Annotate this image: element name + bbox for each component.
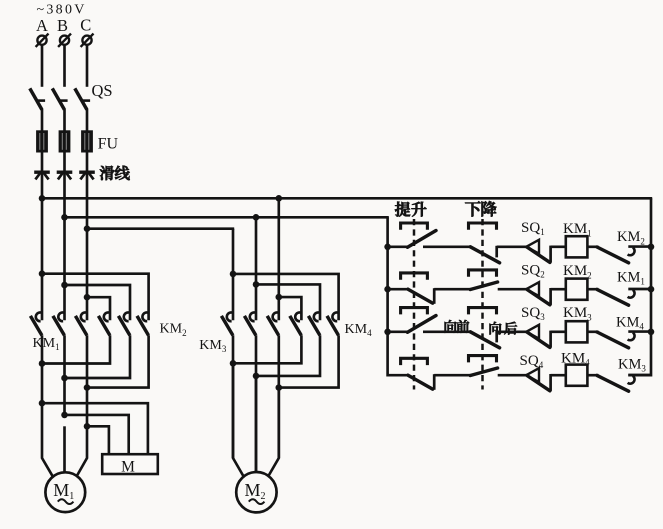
contactor KM4 main contact pole 3 <box>327 312 339 335</box>
label phase B <box>57 16 68 35</box>
wire KM2 pole2 output merge <box>65 335 131 378</box>
controller contact backward row3 bracket <box>469 308 497 315</box>
interlock contact KM2 (NC) <box>597 247 651 263</box>
fuse FU pole A <box>37 131 48 152</box>
wire row4 SQ4 to coil KM4 <box>551 374 566 377</box>
wire phase B down to KM3 <box>255 217 258 320</box>
wire FU to slide-contact phase C <box>86 152 89 173</box>
label phase C <box>80 16 91 35</box>
wire FU to slide-contact phase A <box>41 152 44 173</box>
wire row2 lift to lower contact <box>434 288 470 291</box>
limit switch SQ4 <box>526 368 550 391</box>
wire phase A down to KM3 <box>277 198 280 320</box>
wire cross feed A to KM4 <box>279 297 302 320</box>
node C to KM4 cross feed <box>230 271 237 278</box>
switch QS pole A <box>30 88 45 109</box>
wire QS to FU phase B <box>63 109 66 132</box>
svg-text:KM4: KM4 <box>616 315 644 332</box>
interlock contact KM4 (NC) <box>597 332 651 348</box>
wire KM2 pole3 output merge <box>87 335 149 387</box>
controller contact backward row4 <box>470 368 497 376</box>
label KM3 interlock <box>618 357 646 374</box>
label button 向前 (forward) <box>445 320 470 333</box>
motor M2 <box>236 472 276 512</box>
label ~380V supply <box>37 2 87 17</box>
node merge V motor 1 <box>61 375 68 382</box>
node brake tap phase V <box>61 412 68 419</box>
label button 提升 (lift) <box>395 202 427 217</box>
label KM2 interlock <box>617 229 645 246</box>
node row3 right rail <box>648 329 655 336</box>
node merge U motor 2 <box>230 360 237 367</box>
label SQ2 <box>521 262 545 279</box>
label KM4 (bank) <box>345 322 373 338</box>
svg-text:KM2: KM2 <box>617 229 645 246</box>
label KM1 coil <box>563 221 592 238</box>
node bus L2 tap to KM3 bank <box>253 214 260 221</box>
controller contact forward row4 bracket <box>401 358 428 365</box>
svg-text:KM3: KM3 <box>199 338 227 354</box>
coil KM2 <box>566 279 588 300</box>
contactor KM2 main contact pole 2 <box>118 312 130 335</box>
svg-text:M2: M2 <box>244 480 265 502</box>
label KM3 (bank) <box>199 338 227 354</box>
wire QS to FU phase A <box>41 109 44 132</box>
wire motor M2 lead V <box>255 376 258 472</box>
node bus L1 / phase A <box>39 195 46 202</box>
wire KM3 pole2 output <box>255 335 258 472</box>
wire row4 fwd to back contact <box>434 374 470 377</box>
wire row2 rail to lift contact <box>388 288 409 291</box>
label button 向后 (backward) <box>490 322 518 335</box>
svg-text:C: C <box>80 16 91 35</box>
node bus L3 / phase C <box>84 225 91 232</box>
wire motor M2 lead U <box>233 363 244 476</box>
label 滑线 <box>100 166 130 180</box>
slide-wire collector phase B <box>57 172 73 179</box>
node row1 left rail <box>384 244 391 251</box>
node bus L1 tap to KM3 bank <box>276 195 283 202</box>
lift/lower controller linkage (dashed) <box>413 219 416 390</box>
label phase A <box>36 16 48 35</box>
contactor KM3 main contact pole 3 <box>267 312 279 335</box>
label KM4 interlock <box>616 315 644 332</box>
label QS <box>92 81 113 100</box>
wire KM3 pole3 output <box>277 335 280 458</box>
label KM2 (bank) <box>160 322 187 338</box>
svg-text:M: M <box>121 459 135 476</box>
controller contact forward row3 (NO) <box>408 316 437 333</box>
limit switch SQ2 <box>526 282 550 305</box>
wire cross feed C to KM2 <box>87 297 110 320</box>
wire KM1 pole2 output <box>63 335 66 415</box>
node phase C to KM2 cross feed <box>84 294 91 301</box>
node row2 right rail <box>648 286 655 293</box>
node A to KM4 cross feed <box>276 294 283 301</box>
svg-text:KM1: KM1 <box>33 336 60 352</box>
svg-text:B: B <box>57 16 68 35</box>
wire row3 rail to fwd contact <box>388 330 409 333</box>
wire row1 SQ1 to coil KM1 <box>551 245 566 248</box>
contactor KM1 main contact pole 1 <box>30 312 42 335</box>
label SQ3 <box>521 305 545 322</box>
wire phase A terminal to QS <box>41 45 44 87</box>
wire row3 fwd to back contact <box>423 330 471 333</box>
slide-wire collector phase A <box>34 172 50 179</box>
limit switch SQ1 <box>526 240 550 263</box>
wire phase C down to KM1 <box>86 229 89 321</box>
wire slide-contact down to bus phase A <box>41 174 44 199</box>
node merge W motor 2 <box>276 384 283 391</box>
wire row3 coil KM3 out <box>587 330 598 333</box>
wire KM3 pole1 output <box>232 335 235 458</box>
wire cross feed B to KM4 <box>256 284 320 320</box>
terminal circle phase B <box>58 34 71 47</box>
label FU <box>98 135 119 152</box>
wire brake tap U <box>42 403 148 454</box>
wire KM4 pole3 output merge <box>279 335 339 387</box>
wire motor M2 lead W <box>268 388 278 476</box>
controller contact lift row2 bracket <box>401 273 428 280</box>
fuse FU pole B <box>59 131 70 152</box>
wire phase A down to KM1 <box>41 198 44 320</box>
controller contact lift row2 <box>408 288 434 304</box>
controller contact lift row1 (NO) <box>408 231 437 248</box>
coil KM4 <box>566 365 588 386</box>
brake electromagnet M (box) <box>102 454 158 475</box>
controller contact backward row4 bracket <box>469 356 497 363</box>
controller contact lower row1 <box>470 246 499 263</box>
bus L1 (phase A) horizontal <box>41 197 652 200</box>
node brake tap phase U <box>39 400 46 407</box>
wire FU to slide-contact phase B <box>63 152 66 173</box>
wire KM1 pole3 output <box>86 335 89 426</box>
wire row1 lower contact to SQ1 <box>497 245 527 248</box>
wire KM2 pole1 output merge <box>42 335 110 363</box>
contactor KM4 main contact pole 1 <box>290 312 302 335</box>
wire phase C terminal to QS <box>86 45 89 87</box>
wire brake tap W <box>87 426 109 454</box>
wire KM4 pole1 output merge <box>233 335 301 363</box>
svg-text:A: A <box>36 16 48 35</box>
wire cross feed A to KM2 <box>42 274 149 321</box>
wire row1 lift to lower contact <box>423 245 471 248</box>
wire phase C down to KM3 <box>232 229 235 321</box>
label KM3 coil <box>563 305 592 322</box>
node row1 right rail <box>648 244 655 251</box>
limit switch SQ3 <box>526 325 550 348</box>
controller contact lower row2 <box>470 282 497 290</box>
wire row4 back contact to SQ4 <box>498 374 527 377</box>
label button 下降 (lower) <box>465 201 496 216</box>
node row3 left rail <box>384 329 391 336</box>
bus L2 (phase B) horizontal <box>63 216 389 219</box>
wire motor M1 lead W <box>77 426 87 475</box>
fuse FU pole C <box>82 131 93 152</box>
controller contact forward row3 bracket <box>401 308 428 315</box>
control right rail (from L1) <box>628 198 651 375</box>
wire row3 back contact to SQ3 <box>497 330 527 333</box>
svg-text:SQ3: SQ3 <box>521 305 545 322</box>
wire KM1 pole1 output <box>41 335 44 403</box>
wire row4 coil KM4 out <box>587 374 598 377</box>
label SQ4 <box>520 353 544 370</box>
node merge U motor 1 <box>39 360 46 367</box>
wire row1 rail to lift contact <box>388 245 409 248</box>
label SQ1 <box>521 220 545 237</box>
node row2 left rail <box>384 286 391 293</box>
wire QS to FU phase C <box>86 109 89 132</box>
slide-wire collector phase C <box>79 172 95 179</box>
contactor KM1 main contact pole 2 <box>53 312 65 335</box>
wire phase B terminal to QS <box>63 45 66 87</box>
wire motor M1 lead V <box>63 426 66 472</box>
contactor KM2 main contact pole 1 <box>98 312 110 335</box>
svg-text:FU: FU <box>98 135 119 152</box>
node B to KM4 cross feed <box>253 281 260 288</box>
svg-text:SQ2: SQ2 <box>521 262 545 279</box>
controller contact lower row1 bracket <box>469 223 497 230</box>
contactor KM3 main contact pole 2 <box>244 312 256 335</box>
svg-text:KM3: KM3 <box>563 305 592 322</box>
wire slide-contact down to bus phase B <box>63 174 66 218</box>
control left rail (from L2) <box>388 217 408 375</box>
node merge V motor 2 <box>253 373 260 380</box>
wire phase B down to KM1 <box>63 217 66 320</box>
wire brake tap V <box>65 415 129 455</box>
controller contact backward row3 <box>470 331 499 348</box>
coil KM3 <box>566 321 588 342</box>
coil KM1 <box>566 236 588 257</box>
terminal circle phase A <box>36 34 49 47</box>
svg-text:KM4: KM4 <box>345 322 373 338</box>
label KM1 (bank) <box>33 336 60 352</box>
wire motor M1 lead U <box>42 403 53 477</box>
svg-text:SQ1: SQ1 <box>521 220 545 237</box>
node bus L2 / phase B <box>61 214 68 221</box>
interlock contact KM3 (NC) <box>597 375 651 391</box>
wire row3 SQ3 to coil KM3 <box>551 330 566 333</box>
wire slide-contact down to bus phase C <box>86 174 89 229</box>
svg-text:KM2: KM2 <box>160 322 187 338</box>
node phase B to KM2 cross feed <box>61 282 68 289</box>
contactor KM2 main contact pole 3 <box>137 312 149 335</box>
switch QS pole B <box>52 88 67 109</box>
label KM2 coil <box>563 263 592 280</box>
terminal circle phase C <box>81 34 94 47</box>
contactor KM1 main contact pole 3 <box>75 312 87 335</box>
wire row2 SQ2 to coil KM2 <box>551 288 566 291</box>
controller contact lower row2 bracket <box>469 270 497 277</box>
wire row2 lower contact to SQ2 <box>498 288 527 291</box>
motor M1 <box>45 472 85 512</box>
wire cross feed C to KM4 <box>233 274 339 320</box>
label KM1 interlock <box>617 270 645 287</box>
interlock contact KM1 (NC) <box>597 289 651 305</box>
svg-text:KM3: KM3 <box>618 357 646 374</box>
wire KM4 pole2 output merge <box>256 335 320 376</box>
controller contact forward row4 <box>408 374 434 390</box>
contactor KM4 main contact pole 2 <box>308 312 320 335</box>
node phase A to KM2 cross feed <box>39 270 46 277</box>
node brake tap phase W <box>84 423 91 430</box>
controller contact lift row1 bracket <box>401 223 428 230</box>
wire cross feed B to KM2 <box>65 285 131 320</box>
svg-text:KM1: KM1 <box>617 270 645 287</box>
svg-text:QS: QS <box>92 81 113 100</box>
node merge W motor 1 <box>84 384 91 391</box>
wire row1 coil KM1 out <box>587 245 598 248</box>
forward/backward controller linkage (dashed) <box>481 219 484 390</box>
label KM4 coil <box>561 350 590 367</box>
switch QS pole C <box>75 88 90 109</box>
contactor KM3 main contact pole 1 <box>221 312 233 335</box>
bus L3 (phase C) horizontal <box>86 227 234 230</box>
wire row2 coil KM2 out <box>587 288 598 291</box>
